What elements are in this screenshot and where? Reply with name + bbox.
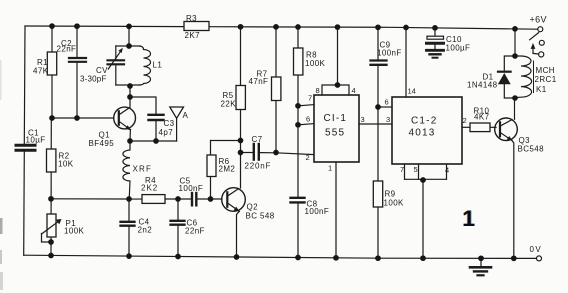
svg-text:3: 3 [386, 115, 390, 124]
svg-text:2: 2 [306, 153, 310, 162]
svg-text:2RC1: 2RC1 [535, 75, 557, 84]
node: relay bottom [512, 95, 518, 101]
node: rail/R7 [273, 24, 279, 30]
resistor R1 [33, 26, 57, 120]
node: ground rail/R9 [375, 255, 381, 261]
node: tank bottom [127, 83, 133, 89]
wire: Q1 base rail y=118 [51, 117, 114, 119]
resistor R2 [47, 118, 74, 256]
inductor XRF [123, 141, 152, 199]
wire: 555 pin 1 to ground rail [328, 162, 336, 258]
svg-text:XRF: XRF [133, 165, 153, 174]
svg-text:K1: K1 [536, 85, 547, 94]
node: ground rail/P1 [48, 253, 54, 259]
resistor R7 [249, 27, 281, 153]
wire: Q3 collector [514, 98, 516, 119]
svg-text:6: 6 [385, 98, 389, 107]
svg-text:10µF: 10µF [26, 136, 46, 145]
svg-text:MCH: MCH [536, 66, 555, 75]
node: P1 wiper [48, 239, 54, 245]
svg-text:R3: R3 [186, 14, 197, 23]
svg-text:L1: L1 [153, 61, 163, 70]
trimmer capacitor CV 3-30pF [80, 46, 124, 85]
svg-text:2M2: 2M2 [219, 165, 236, 174]
node: rail/C2 [74, 23, 80, 29]
node: rail/C9 [375, 24, 381, 30]
capacitor C7 [241, 135, 315, 171]
potentiometer P1 [42, 214, 85, 242]
node: R8/pin6 555 [295, 122, 301, 128]
node: relay top [512, 53, 518, 59]
node: ground rail/C4 [126, 253, 132, 259]
node: R2/P1 [48, 196, 54, 202]
node: collector Q1/C3 [127, 94, 133, 100]
resistor R6 [207, 141, 241, 200]
node: base Q1/C2 [74, 115, 80, 121]
resistor R5 + collector line [221, 27, 246, 188]
node: ground rail/4013 [420, 255, 426, 261]
node: ground rail/Q3 emitter [511, 255, 517, 261]
svg-text:CI-1: CI-1 [324, 113, 348, 124]
node: R8/pin7 555 [295, 103, 301, 109]
capacitor C3 [130, 97, 175, 141]
svg-text:8: 8 [316, 86, 320, 95]
svg-text:4013: 4013 [409, 128, 436, 139]
wire: 4013 pin 6 stub [378, 98, 392, 108]
svg-text:A: A [183, 111, 189, 120]
capacitor C8 [291, 198, 330, 258]
node: C9/pin6 4013 [375, 104, 381, 110]
figure number 1 [462, 206, 476, 231]
node: rail/tank [126, 24, 132, 30]
wire: left rail lower (below C1) [23, 152, 26, 255]
svg-text:1: 1 [328, 164, 332, 173]
node: ground rail/C6 [175, 254, 181, 260]
resistor R3 [184, 14, 209, 40]
wire: tank top [116, 45, 140, 47]
svg-text:4p7: 4p7 [159, 128, 174, 137]
svg-text:4: 4 [352, 86, 356, 95]
relay coil K1 [515, 56, 557, 98]
svg-text:47nF: 47nF [249, 77, 269, 86]
svg-text:4K7: 4K7 [474, 113, 490, 122]
node: C6/C5 [175, 196, 181, 202]
svg-text:555: 555 [325, 128, 345, 139]
svg-text:5: 5 [414, 165, 418, 174]
svg-text:2K7: 2K7 [185, 31, 201, 40]
node: base Q1/R1-R2 [49, 115, 55, 121]
svg-text:BC548: BC548 [518, 145, 545, 154]
svg-text:BF495: BF495 [89, 139, 115, 148]
ground [470, 258, 491, 275]
node: 4013 pins 7-5-4 [420, 177, 426, 183]
diode D1 1N4148 [467, 56, 515, 98]
node: C5/R6/base Q2 [208, 196, 214, 202]
capacitor C2 [57, 26, 87, 118]
wire: relay drop from rail [514, 29, 516, 56]
wire: 555 pins 8-4 top bridge [316, 27, 356, 95]
node: rail/4013 pin14 [403, 25, 409, 31]
node: ground rail/earth [478, 255, 484, 261]
wire: main node rail y=199 [51, 198, 142, 200]
svg-text:3-30pF: 3-30pF [80, 75, 107, 84]
svg-text:3: 3 [361, 115, 365, 124]
node: ground rail/Q2 emitter [234, 254, 240, 260]
node: R7/pin2 555 [273, 150, 279, 156]
svg-text:6: 6 [306, 115, 310, 124]
wire: tank drop from top rail [128, 26, 130, 46]
svg-text:4: 4 [445, 166, 449, 175]
node: ground rail/C8 [295, 255, 301, 261]
terminal 0V [530, 245, 543, 261]
IC U2: 4013 CI-2 [392, 97, 462, 164]
svg-text:+6V: +6V [530, 15, 547, 25]
svg-text:2K2: 2K2 [141, 184, 158, 193]
svg-text:1: 1 [463, 206, 475, 231]
node: rail/C10 [432, 25, 438, 31]
svg-text:10K: 10K [58, 160, 74, 169]
svg-text:C3: C3 [164, 119, 175, 128]
wire: 555 pin 3 to 4013 pin 3 [359, 115, 392, 124]
svg-text:100nF: 100nF [179, 184, 204, 193]
svg-text:100K: 100K [305, 59, 326, 68]
svg-text:7: 7 [308, 94, 312, 103]
node: XRF/R4/C4 [126, 196, 132, 202]
node: bridge 8-4 555 [335, 82, 341, 88]
svg-text:C7: C7 [252, 135, 263, 144]
svg-text:100K: 100K [64, 227, 85, 236]
wire: 4013 pins 7,5,4 to ground [400, 164, 449, 258]
svg-text:22nF: 22nF [57, 45, 77, 54]
wire: top rail right segment [209, 27, 537, 30]
terminal +6V [530, 15, 547, 32]
svg-text:14: 14 [408, 87, 416, 96]
node: rail/R5 [238, 24, 244, 30]
node: C3/antenna [153, 138, 159, 144]
capacitor C1 [16, 129, 46, 151]
node: tank top [126, 43, 132, 49]
antenna A [170, 107, 189, 141]
wire: 555 pin 7 stub [298, 94, 314, 106]
svg-text:100nF: 100nF [377, 49, 402, 58]
svg-text:C1-2: C1-2 [411, 116, 437, 127]
svg-text:7: 7 [400, 165, 404, 174]
wire: bottom rail [24, 255, 537, 258]
relay switch contacts [530, 33, 545, 57]
node: R5/R6 [238, 138, 244, 144]
transistor Q1 [89, 107, 136, 148]
svg-text:BC 548: BC 548 [246, 212, 275, 221]
resistor R9 [373, 181, 404, 258]
svg-text:100K: 100K [384, 199, 405, 208]
wire: left rail upper (above C1) [23, 26, 26, 144]
svg-text:2: 2 [463, 116, 467, 125]
svg-text:100nF: 100nF [305, 207, 330, 216]
resistor R10 + 4013 pin 2 wire [462, 107, 496, 132]
node: R5/C7 [238, 150, 244, 156]
op IC U1: 555 timer CI-1 [314, 95, 359, 162]
node: emitter Q1/XRF [127, 138, 133, 144]
svg-text:100µF: 100µF [446, 44, 471, 53]
svg-text:22nF: 22nF [185, 227, 205, 236]
svg-text:22K: 22K [221, 100, 237, 109]
svg-text:R9: R9 [385, 190, 396, 199]
node: rail/relay [512, 26, 518, 32]
svg-text:47K: 47K [33, 67, 49, 76]
capacitor C6 [171, 199, 205, 257]
svg-text:220nF: 220nF [245, 162, 272, 171]
capacitor C4 [121, 199, 153, 256]
wire: tank bottom [116, 84, 140, 86]
svg-text:Q2: Q2 [247, 203, 259, 212]
capacitor C9 [371, 27, 402, 181]
resistor R8 [294, 27, 326, 197]
wire: top rail left segment [25, 25, 184, 28]
transistor Q2 [222, 188, 275, 257]
svg-text:2n2: 2n2 [138, 226, 153, 235]
wire: 4013 pin 14 from rail [406, 28, 416, 98]
transistor Q3 [495, 118, 544, 258]
wire: emitter node y=141 [130, 140, 177, 142]
node: rail/555 pins 8-4 [335, 24, 341, 30]
resistor R4 [141, 176, 165, 203]
capacitor C10 (electrolytic to ground) [427, 28, 471, 58]
node: ground rail/555 pin1 [333, 255, 339, 261]
svg-text:1N4148: 1N4148 [467, 81, 498, 90]
inductor L1 [140, 46, 163, 85]
svg-text:0V: 0V [530, 245, 543, 254]
wire: Q1 collector [129, 85, 131, 108]
capacitor C5 [179, 177, 204, 206]
node: rail/R1 [49, 23, 55, 29]
node: rail/R8 [295, 24, 301, 30]
wire: 555 pin 6 stub [298, 115, 314, 125]
